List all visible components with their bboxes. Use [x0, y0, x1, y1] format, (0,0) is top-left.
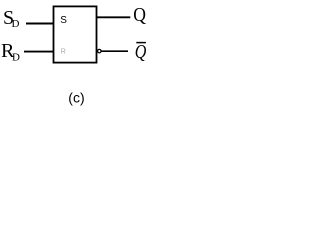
- svg-text:R: R: [61, 49, 66, 56]
- svg-text:Q: Q: [133, 4, 146, 26]
- svg-text:Q: Q: [135, 40, 147, 62]
- svg-text:S: S: [60, 15, 67, 26]
- svg-text:D: D: [12, 51, 20, 63]
- svg-text:D: D: [12, 18, 20, 30]
- svg-text:(c): (c): [68, 89, 84, 105]
